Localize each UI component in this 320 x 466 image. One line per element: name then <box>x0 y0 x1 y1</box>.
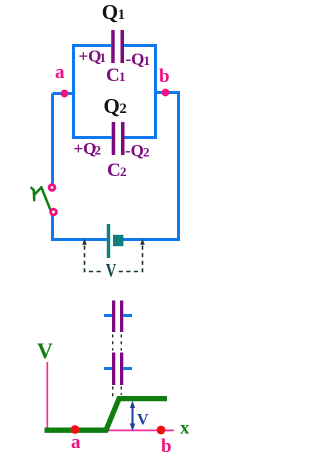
svg-text:b: b <box>161 436 172 457</box>
svg-text:a: a <box>71 432 81 453</box>
svg-text:1: 1 <box>118 7 125 23</box>
capacitor C1 left plate <box>111 30 115 63</box>
wire stub right of lower x-capacitor <box>123 367 132 370</box>
svg-text:Q: Q <box>104 94 120 118</box>
capacitor (x-diagram upper) right plate <box>120 301 123 333</box>
wire below switch down to bottom, to battery <box>53 215 108 240</box>
V axis line <box>46 362 48 431</box>
capacitor C1 right plate <box>121 30 125 63</box>
switch top terminal <box>48 183 57 192</box>
wire stub right of upper x-capacitor <box>123 314 132 317</box>
wire stub left of upper x-capacitor <box>104 314 112 317</box>
svg-text:a: a <box>55 62 65 83</box>
switch bottom terminal <box>49 208 58 217</box>
svg-text:C: C <box>107 160 121 181</box>
capacitor (x-diagram lower) left plate <box>112 353 115 386</box>
svg-text:b: b <box>159 66 170 87</box>
node b junction dot <box>162 89 170 97</box>
dotted alignment lines between capacitors <box>113 335 122 351</box>
potential curve (green) <box>45 399 168 431</box>
wire node a stub <box>53 92 76 95</box>
svg-text:+Q: +Q <box>79 47 102 66</box>
svg-text:1: 1 <box>144 53 151 68</box>
capacitor C2 right plate <box>121 122 125 155</box>
svg-text:C: C <box>106 65 120 86</box>
svg-text:1: 1 <box>119 69 126 84</box>
label C2 <box>107 160 127 181</box>
dashed voltage box left arrow <box>82 239 87 245</box>
svg-text:2: 2 <box>143 145 150 160</box>
capacitor (x-diagram upper) left plate <box>112 301 115 333</box>
wire inner loop right (C1 top-right, right vertical, C2 bottom-right) <box>124 46 156 138</box>
battery short plate (square) <box>113 235 123 246</box>
svg-text:2: 2 <box>120 164 127 179</box>
capacitor (x-diagram lower) right plate <box>120 353 123 386</box>
wire inner loop left (C1 top-left, left vertical, C2 bottom-left) <box>74 46 112 138</box>
label -Q2 <box>125 141 150 160</box>
svg-text:V: V <box>37 338 53 363</box>
svg-text:2: 2 <box>120 101 127 117</box>
label +Q1 <box>79 47 107 66</box>
label -Q1 <box>126 50 151 69</box>
wire outer left from node a down to switch <box>51 94 54 184</box>
battery long plate <box>107 224 110 258</box>
label C1 <box>106 65 126 86</box>
dashed voltage box right side <box>118 246 143 272</box>
svg-text:x: x <box>180 418 189 438</box>
node a junction dot <box>61 90 69 98</box>
svg-text:+Q: +Q <box>74 139 97 158</box>
svg-text:V: V <box>137 412 149 429</box>
svg-text:-Q: -Q <box>125 141 144 160</box>
svg-text:V: V <box>106 261 117 282</box>
capacitor C2 left plate <box>112 122 116 155</box>
svg-text:-Q: -Q <box>126 50 145 69</box>
svg-text:1: 1 <box>100 50 107 65</box>
svg-text:2: 2 <box>95 143 102 158</box>
dot at b on axis <box>157 426 166 435</box>
label Q2 <box>104 94 127 118</box>
wire node b stub and outer right side down to battery <box>123 93 179 240</box>
wire stub left of lower x-capacitor <box>104 367 112 370</box>
x axis line <box>47 429 175 431</box>
svg-text:Q: Q <box>102 0 118 24</box>
switch lever (green) <box>31 187 51 211</box>
label +Q2 <box>74 139 102 158</box>
label Q1 <box>102 0 125 24</box>
dot at a on axis <box>71 425 80 434</box>
dashed voltage box right arrow <box>140 239 145 245</box>
dashed voltage box left side <box>85 246 105 272</box>
double arrow for V step <box>130 401 135 431</box>
dotted alignment lines below lower capacitor <box>113 387 122 400</box>
